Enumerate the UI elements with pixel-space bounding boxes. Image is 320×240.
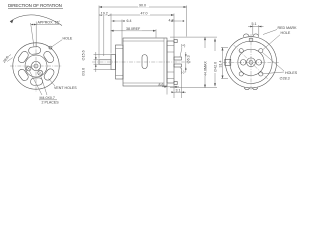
bottom dimension 3.1 (171, 68, 186, 98)
svg-text:M4.0X0.7: M4.0X0.7 (40, 96, 55, 100)
front view shaft circle (34, 64, 38, 68)
dimension 38.0REF (111, 26, 156, 37)
rear view shaft circle (249, 60, 253, 64)
bottom dimension 8.6 (159, 83, 180, 98)
dimension dia 42.0 (213, 39, 218, 87)
svg-text:90.0: 90.0 (139, 4, 146, 8)
dimension 90.0 (99, 3, 187, 8)
terminal dim arrows right of endbell (185, 52, 187, 73)
svg-text:APPROX. 15°: APPROX. 15° (38, 21, 61, 25)
endbell (167, 41, 174, 83)
svg-text:(+): (+) (181, 44, 186, 48)
rotation direction arc arrow (10, 15, 62, 26)
svg-text:∅15.6: ∅15.6 (82, 50, 86, 60)
svg-text:HOLE: HOLE (281, 31, 291, 35)
svg-text:∅28.3: ∅28.3 (280, 77, 290, 81)
vent slot left (30, 78, 42, 86)
side view centerline (92, 61, 191, 63)
dimension 47.0 (111, 11, 174, 16)
terminal upper (174, 57, 182, 60)
mounting hole M4 left (26, 66, 31, 71)
vent slot top-right (17, 50, 30, 64)
hole bottom-right (259, 72, 263, 76)
small hole front face (49, 46, 52, 49)
body crimp line bottom (123, 82, 164, 84)
rear view top rivet (249, 39, 253, 42)
svg-text:∅6.3: ∅6.3 (187, 55, 191, 63)
vent slot right (28, 46, 41, 54)
brush circle left (240, 60, 246, 66)
rear view rim circle (230, 41, 272, 83)
dimension 6.4 (112, 19, 132, 44)
body crimp line top (123, 40, 164, 42)
front view outer circle (13, 43, 59, 89)
shaft dim arrows (94, 52, 112, 72)
label HOLE (rear view) with leader (263, 31, 291, 49)
dimension 4.3 (169, 19, 185, 23)
extension line right end 90.0 (186, 6, 188, 37)
vent slot bottom-left (43, 68, 56, 82)
angle reference vertical line (35, 22, 37, 48)
extension line boss face (110, 14, 112, 54)
hole bottom-left (239, 72, 243, 76)
shaft (99, 60, 111, 64)
mounting hole M4 right (38, 70, 43, 75)
vent slot top-left (17, 68, 30, 82)
dimension 44.0MAX (203, 37, 208, 88)
rear view diagonal centerline (234, 45, 269, 80)
front view boss circle (31, 61, 40, 70)
svg-text:47.0: 47.0 (141, 12, 148, 16)
body seam line (163, 38, 165, 86)
extension line shaft tip (98, 6, 100, 59)
terminal lower (174, 64, 182, 67)
endbell screw top (174, 39, 177, 42)
vent slot bottom-right (42, 50, 55, 64)
motor body (123, 38, 167, 86)
svg-text:∅3.6: ∅3.6 (82, 68, 86, 76)
front view horizontal centerline (10, 65, 62, 67)
brush circle right (256, 60, 262, 66)
svg-text:∅42.0: ∅42.0 (214, 62, 218, 72)
front view vertical centerline (35, 42, 37, 92)
dimension 19.2 (99, 11, 111, 16)
label HOLES with leader (263, 53, 298, 75)
rear view top extension line (170, 36, 217, 38)
svg-text:2 PLACES: 2 PLACES (42, 101, 60, 105)
top bump right (253, 34, 259, 37)
endbell screw bottom (174, 81, 177, 84)
svg-text:VENT HOLES: VENT HOLES (54, 86, 77, 90)
label HOLE (front view) with leader (52, 37, 73, 48)
rear view boss circle (238, 49, 264, 75)
label RED MARK with leader (263, 26, 297, 35)
label M4.0X0.7 2 PLACES with leaders (30, 71, 60, 105)
svg-text:8.6: 8.6 (159, 83, 164, 87)
hole top-left (239, 49, 243, 53)
svg-text:38.0REF: 38.0REF (126, 27, 141, 31)
title: DIRECTION OF ROTATION (8, 3, 63, 9)
rear view center circle (247, 58, 256, 67)
label (-) with leader (180, 67, 184, 74)
svg-text:31.4: 31.4 (218, 61, 222, 68)
svg-text:HOLE: HOLE (63, 37, 73, 41)
extension line 47.0 right (173, 14, 175, 41)
rear view bottom extension line (170, 87, 217, 89)
svg-text:3.1: 3.1 (176, 88, 181, 92)
body vent slot front (142, 55, 147, 69)
angle 15 deg line (31, 23, 34, 47)
front view inner ring (25, 55, 47, 77)
top bump left (243, 34, 249, 37)
svg-text:HOLES: HOLES (285, 71, 298, 75)
svg-text:19.2: 19.2 (101, 12, 108, 16)
front housing (116, 45, 124, 79)
rear view vertical centerline (250, 34, 252, 91)
svg-text:DIRECTION OF ROTATION: DIRECTION OF ROTATION (8, 3, 62, 8)
dimension 31.4 (218, 48, 228, 79)
angle dimension arrows (31, 24, 59, 26)
svg-text:44.0MAX: 44.0MAX (204, 61, 208, 76)
svg-text:6.4: 6.4 (127, 19, 132, 23)
rear view horizontal centerline (223, 61, 279, 63)
svg-text:4.3: 4.3 (169, 19, 174, 23)
side tab left (225, 59, 231, 65)
dimension 5.1 top of rear view (248, 22, 264, 35)
extension line secondary left (103, 14, 105, 57)
label VENT HOLES with leader (49, 79, 78, 91)
label (+) with leader (180, 44, 185, 57)
bottom bumps (244, 88, 258, 90)
hole top-right (259, 49, 263, 53)
svg-text:RED MARK: RED MARK (278, 26, 298, 30)
rear view outer circle (225, 37, 276, 88)
bearing boss (111, 55, 116, 70)
edge dimension 29.0 with tick marks left (2, 55, 13, 64)
svg-text:5.1: 5.1 (252, 22, 257, 26)
